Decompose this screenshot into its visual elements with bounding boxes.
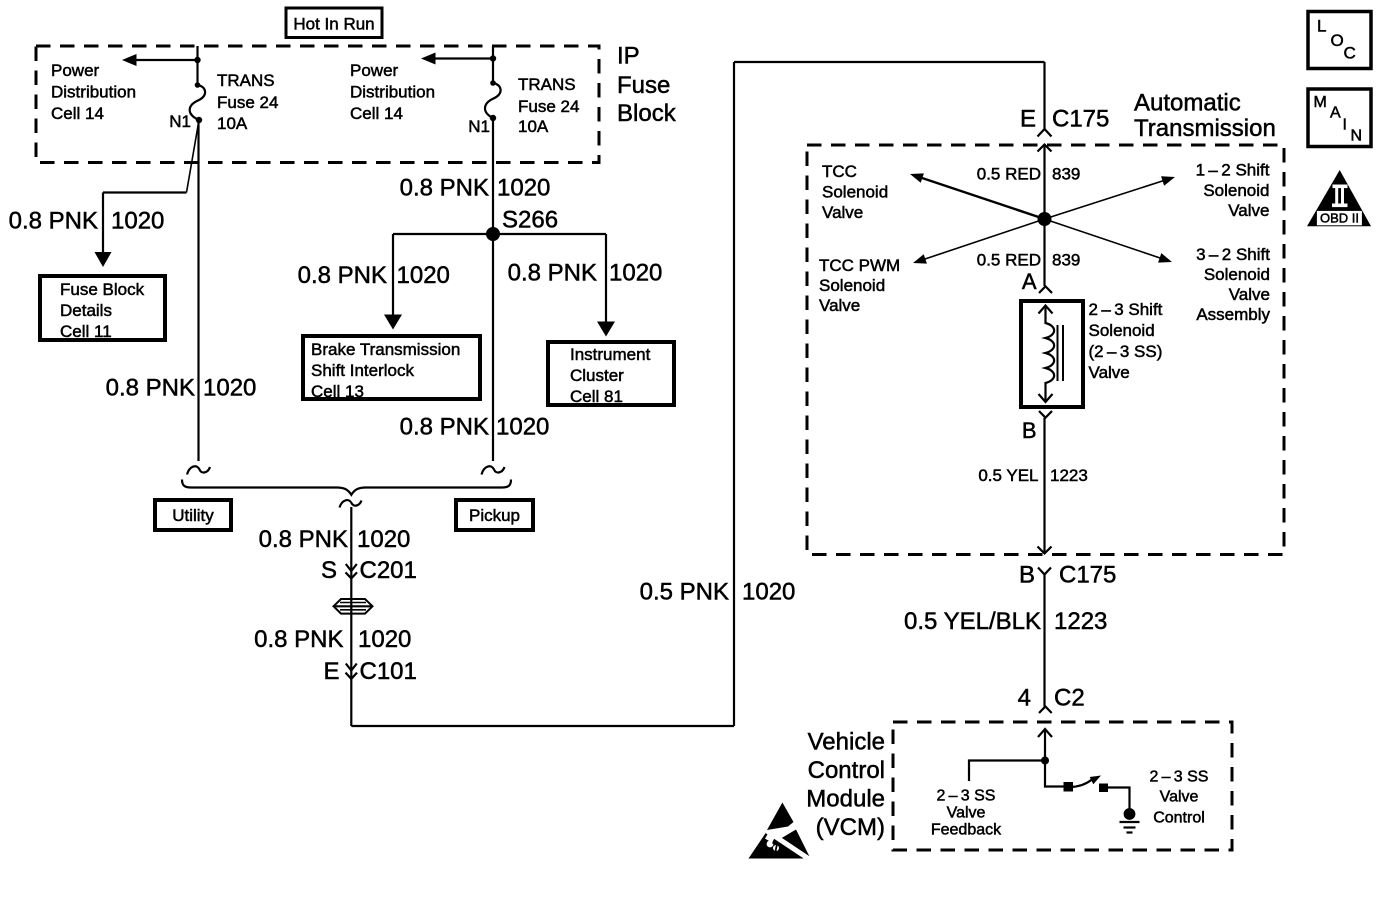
wire down arrow to Brake Transmission Shift Interlock	[392, 234, 394, 317]
switch contact left	[1064, 782, 1074, 792]
svg-text:Distribution: Distribution	[51, 83, 136, 102]
wire break squiggle (center)	[340, 500, 362, 507]
svg-text:Valve: Valve	[819, 296, 860, 315]
svg-text:1020: 1020	[497, 174, 550, 201]
svg-text:L: L	[1317, 17, 1326, 36]
component box Brake Transmission Shift Interlock Cell 13	[303, 336, 480, 401]
label Power Distribution Cell 14 (left)	[51, 61, 136, 123]
svg-text:A: A	[1022, 269, 1037, 294]
wire to switch contact	[1045, 761, 1064, 787]
svg-text:0.8 PNK: 0.8 PNK	[9, 208, 98, 235]
Automatic Transmission dashed box	[807, 145, 1284, 555]
svg-text:Solenoid: Solenoid	[819, 276, 885, 295]
label TCC PWM Solenoid Valve	[819, 256, 900, 315]
wire arrow to 1-2 Shift Solenoid Valve	[1045, 176, 1176, 219]
wire label 0.5 YEL 1223	[978, 466, 1088, 485]
svg-text:0.5 RED: 0.5 RED	[977, 164, 1041, 183]
wire through grommet down	[350, 598, 352, 726]
page icon MAIN	[1308, 89, 1371, 147]
svg-text:Valve: Valve	[1229, 285, 1270, 304]
svg-text:(2 – 3 SS): (2 – 3 SS)	[1089, 342, 1163, 361]
ESD sensitive symbol	[749, 803, 813, 862]
svg-text:Fuse Block: Fuse Block	[60, 280, 145, 299]
svg-text:2 – 3 SS: 2 – 3 SS	[937, 788, 996, 805]
component box Fuse Block Details Cell 11	[40, 276, 165, 341]
wire label 0.8 PNK 1020 (cluster branch)	[508, 259, 663, 286]
svg-text:Brake Transmission: Brake Transmission	[311, 340, 460, 359]
page icon LOC	[1308, 12, 1371, 69]
svg-text:0.5 YEL: 0.5 YEL	[978, 466, 1038, 485]
svg-text:B: B	[1022, 418, 1037, 443]
splice S266	[486, 206, 558, 241]
node at F2 feed	[490, 55, 496, 61]
svg-text:Solenoid: Solenoid	[1089, 321, 1155, 340]
svg-text:Solenoid: Solenoid	[822, 183, 888, 202]
svg-text:1020: 1020	[357, 526, 410, 553]
wire arrow entering VCM	[1038, 729, 1052, 761]
svg-text:Valve: Valve	[1089, 363, 1130, 382]
svg-text:1223: 1223	[1050, 466, 1088, 485]
svg-text:Pickup: Pickup	[469, 506, 520, 525]
svg-text:Distribution: Distribution	[350, 83, 435, 102]
wire arrow to Power Distribution (right)	[433, 57, 493, 59]
wire down arrow to Instrument Cluster	[605, 234, 607, 324]
svg-text:0.8 PNK: 0.8 PNK	[106, 375, 195, 402]
svg-text:Transmission: Transmission	[1134, 115, 1276, 142]
wire arrow to 3-2 Shift Solenoid Valve Assembly	[1045, 219, 1173, 263]
svg-text:N: N	[1351, 128, 1363, 145]
switch blade with arrow	[1071, 776, 1101, 788]
svg-text:C2: C2	[1054, 684, 1085, 711]
wire solenoid to C175 cavity B	[1043, 418, 1045, 554]
svg-text:0.5 PNK: 0.5 PNK	[640, 579, 729, 606]
wire vertical riser	[733, 62, 735, 726]
wire horizontal run to the right	[351, 725, 734, 727]
svg-text:0.8 PNK: 0.8 PNK	[508, 259, 597, 286]
svg-text:0.5 YEL/BLK: 0.5 YEL/BLK	[904, 608, 1041, 635]
svg-text:(VCM): (VCM)	[816, 814, 885, 841]
svg-text:Cell 81: Cell 81	[570, 387, 623, 406]
connector 4 C2	[1018, 684, 1085, 713]
label Vehicle Control Module (VCM)	[806, 728, 885, 841]
wire S266 output down to splice options	[492, 234, 494, 461]
wire label 0.8 PNK 1020 (above S266)	[400, 174, 551, 201]
label 2-3 Shift Solenoid (2-3 SS) Valve	[1089, 300, 1163, 382]
wire down arrow into Fuse Block Details	[102, 193, 104, 256]
svg-text:2 – 3 SS: 2 – 3 SS	[1150, 769, 1209, 786]
wire label 0.5 YEL/BLK 1223	[904, 608, 1107, 635]
wire C175 to C2	[1043, 575, 1045, 707]
wire common output down	[350, 507, 352, 598]
svg-text:0.5 RED: 0.5 RED	[977, 250, 1041, 269]
svg-text:Shift Interlock: Shift Interlock	[311, 361, 414, 380]
Hot In Run box	[286, 8, 382, 38]
svg-text:1020: 1020	[397, 262, 450, 289]
fuse F1 TRANS Fuse 24 10A	[190, 82, 205, 123]
value label TRANS Fuse 24 10A (right)	[518, 75, 579, 136]
svg-text:0.8 PNK: 0.8 PNK	[254, 626, 343, 653]
svg-text:Hot In Run: Hot In Run	[293, 15, 374, 34]
svg-text:Block: Block	[617, 100, 677, 127]
svg-text:Power: Power	[51, 61, 100, 80]
svg-text:1223: 1223	[1054, 608, 1107, 635]
svg-text:Solenoid: Solenoid	[1203, 181, 1269, 200]
OBD II triangle icon	[1307, 170, 1371, 226]
node splice in transmission	[1038, 212, 1052, 226]
wire fuse F2 output down to S266	[492, 118, 494, 234]
svg-text:TRANS: TRANS	[217, 71, 275, 90]
wire horizontal to Fuse Block Details branch	[103, 191, 187, 193]
label 2-3 SS Valve Control	[1150, 769, 1209, 827]
svg-text:4: 4	[1018, 684, 1031, 711]
label 3-2 Shift Solenoid Valve Assembly	[1196, 245, 1270, 324]
brace for vehicle options	[182, 480, 511, 495]
IP Fuse Block dashed box	[36, 46, 599, 163]
svg-text:1020: 1020	[358, 626, 411, 653]
svg-text:E: E	[323, 658, 339, 685]
wire arrow to TCC Solenoid Valve	[910, 173, 1045, 219]
component box Instrument Cluster Cell 81	[548, 342, 674, 406]
svg-text:839: 839	[1052, 250, 1080, 269]
wire fuse F2 feed from Hot In Run	[492, 46, 494, 83]
svg-text:Assembly: Assembly	[1196, 305, 1270, 324]
svg-text:1020: 1020	[496, 413, 549, 440]
switch contact right	[1099, 784, 1108, 793]
svg-text:1020: 1020	[609, 259, 662, 286]
svg-text:C101: C101	[360, 658, 417, 685]
svg-text:Vehicle: Vehicle	[808, 728, 885, 755]
label Power Distribution Cell 14 (right)	[350, 61, 435, 123]
connector arrow leaving transmission	[1038, 547, 1052, 554]
option box Pickup	[456, 500, 533, 530]
svg-text:2 – 3 Shift: 2 – 3 Shift	[1089, 300, 1163, 319]
svg-text:Instrument: Instrument	[570, 345, 651, 364]
svg-text:C: C	[1344, 44, 1356, 63]
wire diagonal branch from fuse F1	[187, 120, 200, 193]
svg-text:Cluster: Cluster	[570, 366, 624, 385]
svg-text:Valve: Valve	[1228, 201, 1269, 220]
svg-text:TCC: TCC	[822, 162, 857, 181]
svg-text:OBD II: OBD II	[1320, 210, 1359, 225]
connector E C101	[323, 658, 416, 685]
label Automatic Transmission	[1134, 90, 1276, 143]
svg-text:Control: Control	[1153, 810, 1205, 827]
wire drop to C175 cavity E	[1043, 62, 1045, 129]
wire fuse F1 feed from Hot In Run	[196, 46, 198, 85]
VCM dashed box	[893, 722, 1232, 850]
svg-text:Feedback: Feedback	[931, 822, 1002, 839]
wire label 0.8 PNK 1020 (left long wire)	[106, 375, 257, 402]
node VCM junction	[1041, 757, 1049, 765]
wire fuse F1 output down to splice options	[197, 120, 199, 461]
svg-text:N1: N1	[468, 117, 490, 136]
node at F1 feed	[194, 57, 200, 63]
svg-text:TCC PWM: TCC PWM	[819, 256, 900, 275]
wire feedback stub	[969, 761, 1045, 782]
wire S266 horizontal branch	[393, 233, 606, 235]
svg-text:Cell 14: Cell 14	[350, 104, 403, 123]
solenoid coil box 2-3 Shift Solenoid	[1021, 301, 1083, 407]
svg-text:Valve: Valve	[1160, 789, 1199, 806]
svg-text:Fuse 24: Fuse 24	[518, 97, 579, 116]
label IP Fuse Block	[617, 43, 677, 128]
grommet pass-through	[334, 599, 373, 614]
wire label 0.5 PNK 1020 (riser)	[640, 579, 796, 606]
svg-text:10A: 10A	[518, 117, 549, 136]
svg-text:N1: N1	[169, 112, 191, 131]
fuse F2 TRANS Fuse 24 10A	[485, 80, 501, 121]
connector chevron at pin B	[1039, 411, 1052, 418]
svg-text:1 – 2 Shift: 1 – 2 Shift	[1196, 161, 1270, 180]
svg-text:Module: Module	[806, 785, 885, 812]
svg-text:1020: 1020	[203, 375, 256, 402]
wire label 0.8 PNK 1020 (fuse block branch)	[9, 208, 165, 235]
svg-text:C175: C175	[1059, 561, 1116, 588]
value label TRANS Fuse 24 10A (left)	[217, 71, 278, 133]
connector chevron at pin A	[1039, 286, 1052, 293]
wire label 0.8 PNK 1020 (above C101)	[254, 626, 411, 653]
svg-text:Valve: Valve	[947, 805, 986, 822]
svg-text:I: I	[1343, 117, 1347, 134]
svg-text:Power: Power	[350, 61, 399, 80]
wire label 0.8 PNK 1020 (below cluster)	[400, 413, 550, 440]
svg-text:S266: S266	[502, 206, 558, 233]
svg-text:Utility: Utility	[172, 506, 214, 525]
wire switch to ground	[1107, 788, 1130, 810]
connector B C175	[1019, 561, 1116, 588]
svg-text:0.8 PNK: 0.8 PNK	[259, 526, 348, 553]
svg-text:0.8 PNK: 0.8 PNK	[400, 413, 489, 440]
wire label 0.5 RED 839 (upper)	[977, 164, 1081, 183]
svg-text:IP: IP	[617, 43, 640, 70]
wire C175-E into transmission	[1043, 145, 1045, 287]
svg-text:839: 839	[1052, 164, 1080, 183]
svg-text:Automatic: Automatic	[1134, 90, 1241, 117]
wire arrow to TCC PWM Solenoid Valve	[913, 219, 1045, 264]
svg-text:Solenoid: Solenoid	[1204, 265, 1270, 284]
svg-text:Control: Control	[808, 757, 885, 784]
svg-text:Cell 14: Cell 14	[51, 104, 104, 123]
svg-text:C175: C175	[1052, 105, 1109, 132]
connector S C201	[321, 557, 417, 584]
ground terminal dot	[1124, 808, 1136, 820]
svg-text:A: A	[1330, 105, 1341, 122]
ground symbol	[1120, 822, 1140, 833]
label TCC Solenoid Valve	[822, 162, 888, 222]
svg-text:C201: C201	[360, 557, 417, 584]
svg-text:S: S	[321, 557, 337, 584]
label 2-3 SS Valve Feedback	[931, 788, 1002, 839]
connector E C175	[1020, 105, 1109, 151]
svg-text:Fuse 24: Fuse 24	[217, 93, 278, 112]
option box Utility	[155, 500, 231, 530]
wire break squiggle (right)	[482, 466, 505, 474]
svg-text:Fuse: Fuse	[617, 72, 670, 99]
svg-text:3 – 2 Shift: 3 – 2 Shift	[1196, 245, 1270, 264]
svg-text:M: M	[1314, 94, 1327, 111]
svg-text:0.8 PNK: 0.8 PNK	[400, 174, 489, 201]
svg-text:Valve: Valve	[822, 203, 863, 222]
svg-text:0.8 PNK: 0.8 PNK	[298, 262, 387, 289]
svg-text:1020: 1020	[111, 208, 164, 235]
wire label 0.8 PNK 1020 (BTSI branch)	[298, 262, 450, 289]
svg-text:10A: 10A	[217, 114, 248, 133]
svg-text:B: B	[1019, 561, 1035, 588]
svg-text:1020: 1020	[742, 579, 795, 606]
wire break squiggle (left)	[187, 466, 210, 474]
svg-text:Cell 13: Cell 13	[311, 382, 364, 401]
label 1-2 Shift Solenoid Valve	[1196, 161, 1270, 221]
svg-text:TRANS: TRANS	[518, 75, 576, 94]
wire label 0.5 RED 839 (lower)	[977, 250, 1081, 269]
wire label 0.8 PNK 1020 (above C201)	[259, 526, 411, 553]
wire horizontal top run	[734, 61, 1045, 63]
svg-text:E: E	[1020, 105, 1036, 132]
wire arrow to Power Distribution (left)	[134, 59, 198, 61]
svg-text:O: O	[1331, 31, 1344, 50]
svg-text:Details: Details	[60, 301, 112, 320]
svg-text:Cell 11: Cell 11	[60, 322, 112, 341]
